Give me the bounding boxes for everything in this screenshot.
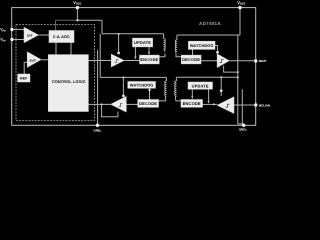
svg-text:CONTROL LOGIC: CONTROL LOGIC: [52, 79, 86, 84]
box sigma-delta ADC: [49, 31, 74, 43]
glyph bottom sender: [226, 104, 230, 107]
node VDD1 T: [76, 19, 78, 21]
wire bottom-left coil tail to decode: [159, 100, 166, 102]
box WATCHDOG top: [188, 41, 215, 49]
coil top-left: [164, 39, 166, 52]
wire receiver pwr stub: [224, 66, 238, 73]
wire bottom channel decode to triangle: [126, 103, 137, 105]
node clock gnd tap: [101, 103, 103, 105]
wire top-right coil stem: [176, 35, 178, 40]
buffer BUF: [27, 52, 41, 68]
wire update bottom arrow 1: [191, 89, 193, 97]
bubble watchdog bottom arm: [148, 89, 150, 91]
junction dots: [76, 19, 239, 105]
wire watchdog bottom arm: [149, 88, 151, 99]
wire top-right coil tail to decode: [176, 54, 181, 57]
wire ADC stub 2: [70, 43, 72, 55]
wire bottom-right coil stem: [175, 77, 177, 81]
svg-text:BUF: BUF: [29, 58, 36, 62]
pin circles: [10, 6, 257, 127]
wire rail A: [102, 33, 164, 35]
pin VDD1: [76, 6, 79, 9]
wire encode to coil tail: [159, 54, 165, 57]
buffer bottom sender: [217, 97, 234, 114]
node bottom wire tap: [213, 103, 215, 105]
pin VIN+: [10, 28, 13, 31]
wire VDD2 inner vertical: [238, 35, 244, 125]
svg-text:AD7401A: AD7401A: [199, 21, 221, 26]
wire watchdog elbow to bubble: [215, 46, 218, 51]
coils: [164, 39, 177, 101]
wire GND1 vertical: [97, 50, 99, 125]
wire VDD2 drop: [239, 8, 241, 35]
bubble top-right triangle: [216, 51, 219, 54]
bubbles: [117, 51, 222, 97]
box CONTROL LOGIC: [48, 55, 88, 112]
node rail B bubble tap right: [220, 76, 222, 78]
box WATCHDOG bottom: [128, 82, 156, 89]
svg-text:DECODE: DECODE: [182, 57, 200, 62]
pin GND1: [96, 124, 99, 127]
wire MCLKIN: [234, 104, 254, 106]
glyph bottom receiver: [119, 104, 123, 107]
wire top-left coil stem: [163, 34, 165, 39]
wire rail VDD2 top: [177, 34, 240, 36]
box ENCODE top: [140, 55, 160, 64]
hysteresis glyphs: [115, 60, 230, 108]
wire triangle to ADC: [39, 34, 49, 36]
svg-text:ENCODE: ENCODE: [140, 57, 158, 62]
node rail A bubble tap: [118, 33, 120, 35]
arrow update bottom2: [207, 101, 209, 104]
arrow update bottom1: [191, 96, 193, 99]
node rail B bubble tap: [122, 76, 124, 78]
bubble bottom-left triangle: [122, 95, 125, 98]
wire bottom-left coil stem: [165, 77, 167, 81]
box UPDATE top: [133, 38, 153, 47]
bubble top-left triangle: [117, 52, 120, 55]
wire VDD inner drop: [99, 34, 101, 78]
triangles: [24, 27, 234, 113]
svg-text:MDAT: MDAT: [259, 59, 267, 63]
wire REF to BUF: [24, 62, 27, 74]
svg-text:VDD1: VDD1: [73, 0, 82, 5]
op-amp input DIS: [24, 27, 39, 43]
pin VIN-: [10, 38, 13, 41]
node receiver pwr tap: [237, 71, 239, 73]
wire ADC top feed: [55, 20, 57, 30]
wire data control logic to triangle: [88, 60, 111, 62]
svg-text:WATCHDOG: WATCHDOG: [130, 83, 154, 88]
wire update arrow 1: [134, 47, 136, 57]
glyph top sender: [115, 60, 119, 63]
wire BUF to control logic: [41, 59, 48, 61]
wire ADC stub 1: [55, 43, 57, 55]
svg-text:DIS: DIS: [27, 33, 32, 37]
box texts: [20, 33, 214, 106]
pin MCLKIN: [254, 103, 257, 106]
wire update arrow 2: [148, 47, 150, 53]
wire clock into control logic: [88, 103, 110, 105]
wire gnd stub bottom-left triangle: [102, 104, 118, 116]
buffer top receiver: [217, 54, 229, 68]
wire MDAT: [229, 60, 254, 62]
wire bubble drop bottom-left: [122, 77, 124, 94]
wire VDD1 drop: [76, 8, 78, 21]
wire VIN+: [14, 29, 24, 31]
buffer top sender: [111, 54, 124, 67]
wire VIN-: [14, 39, 24, 41]
dashed analog box: [16, 25, 95, 121]
pin GND2: [242, 124, 245, 127]
wire rail B right: [176, 76, 237, 78]
svg-text:Σ-Δ ADC: Σ-Δ ADC: [53, 34, 70, 39]
wire VDD1 rail y20 left faint: [56, 19, 78, 21]
box UPDATE bottom: [188, 82, 213, 89]
pin MDAT: [254, 59, 257, 62]
arrowheads: [134, 52, 210, 104]
wire watchdog arm down: [192, 49, 194, 55]
wire apex to encode: [124, 60, 139, 62]
coil bottom-right: [175, 81, 177, 101]
wire rail B: [100, 76, 166, 78]
wire bubble to triangle bottom-right: [220, 92, 222, 96]
svg-text:REF: REF: [20, 77, 28, 81]
svg-text:MCLKIN: MCLKIN: [259, 103, 270, 107]
wire VDD1 vertical to rail A: [101, 20, 103, 34]
coil top-right: [175, 40, 177, 53]
wire VDD1 rail y20: [77, 19, 102, 21]
svg-text:DECODE: DECODE: [139, 101, 157, 106]
bubble bottom-right triangle: [220, 89, 223, 92]
arrow update2: [148, 52, 150, 55]
wire decode to receiver triangle: [201, 60, 217, 62]
wire bottom-right coil tail to encode: [176, 100, 181, 102]
node rail B right tap: [237, 76, 239, 78]
svg-text:UPDATE: UPDATE: [192, 83, 209, 88]
box REF: [18, 74, 30, 82]
svg-text:UPDATE: UPDATE: [134, 40, 151, 45]
svg-text:ENCODE: ENCODE: [183, 101, 201, 106]
box ENCODE bottom: [181, 100, 203, 108]
wire update bottom arrow 2: [208, 89, 210, 101]
svg-text:VDD2: VDD2: [237, 0, 246, 5]
svg-text:WATCHDOG: WATCHDOG: [190, 43, 214, 48]
buffer bottom receiver: [111, 96, 127, 112]
box DECODE top: [181, 55, 201, 64]
coil bottom-left: [165, 81, 167, 101]
boxes: [18, 31, 215, 112]
arrow update1: [134, 57, 136, 60]
pin VDD2: [238, 6, 241, 9]
box DECODE bottom: [138, 100, 159, 108]
chip outline: [12, 8, 256, 126]
glyph top receiver: [220, 60, 224, 63]
wire bubble drop bottom-right: [220, 77, 222, 89]
wire bottom channel encode to apex: [203, 103, 218, 105]
wire bubble drop top-left: [118, 34, 120, 52]
wire GND2 stub: [241, 89, 243, 125]
